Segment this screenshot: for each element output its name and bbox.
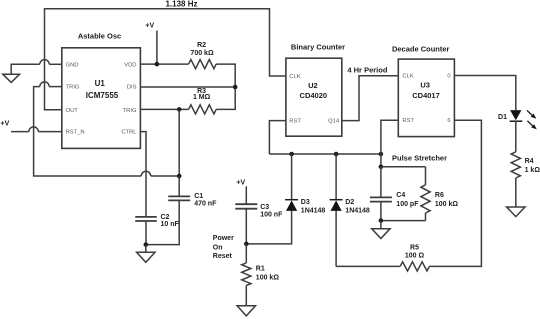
svg-text:+V: +V	[236, 179, 245, 186]
diode D3 1N4148	[246, 154, 325, 244]
LED D1	[498, 110, 537, 129]
svg-text:CD4017: CD4017	[412, 91, 440, 100]
node junction rail/C1	[177, 174, 182, 179]
resistor R6 100 kOhm	[421, 167, 459, 221]
binary counter U2 CD4020 box	[286, 58, 342, 136]
svg-text:1 kΩ: 1 kΩ	[525, 167, 540, 174]
svg-text:VDD: VDD	[124, 62, 136, 68]
svg-text:+V: +V	[1, 120, 10, 127]
svg-text:Astable Osc: Astable Osc	[78, 32, 121, 41]
svg-text:OUT: OUT	[66, 108, 79, 114]
svg-text:+V: +V	[145, 23, 154, 30]
svg-text:100 Ω: 100 Ω	[405, 252, 425, 259]
node junction pulse stretcher top	[379, 165, 384, 170]
resistor R2 700 kOhm	[189, 42, 217, 69]
svg-text:TRIG: TRIG	[66, 85, 80, 91]
svg-text:DIS: DIS	[127, 85, 137, 91]
svg-text:1 MΩ: 1 MΩ	[193, 94, 211, 101]
wire +V to U1 RST_N pin	[11, 127, 62, 132]
svg-text:Pulse Stretcher: Pulse Stretcher	[392, 154, 447, 163]
svg-text:R1: R1	[256, 266, 265, 273]
node junction POR	[244, 242, 249, 247]
node label Power On Reset	[213, 235, 234, 260]
diode D2 1N4148	[330, 154, 370, 266]
resistor R3 1 MOhm	[189, 88, 217, 114]
svg-text:U3: U3	[420, 81, 430, 90]
svg-text:100 nF: 100 nF	[260, 212, 283, 219]
svg-text:RST: RST	[289, 119, 301, 125]
svg-text:6: 6	[447, 118, 450, 124]
svg-text:470 nF: 470 nF	[194, 201, 217, 208]
wire OUT of U1 to top feedback line to U2 CLK	[45, 9, 286, 110]
svg-text:CLK: CLK	[402, 74, 413, 80]
svg-text:C4: C4	[396, 192, 405, 199]
svg-text:Power: Power	[213, 235, 234, 242]
capacitor C2 10 nF	[135, 214, 179, 245]
svg-text:RST_N: RST_N	[66, 130, 85, 136]
ground (R1)	[237, 306, 255, 316]
wire reset rail	[269, 153, 381, 155]
svg-text:1N4148: 1N4148	[301, 207, 326, 214]
svg-text:R2: R2	[197, 42, 206, 49]
node junction DIS	[233, 85, 238, 90]
capacitor C3 100 nF	[235, 204, 283, 244]
wire VDD to R2	[140, 63, 188, 65]
resistor R5 100 Ohm	[400, 244, 429, 271]
svg-text:ICM7555: ICM7555	[86, 91, 119, 100]
node junction pulse stretcher bottom	[379, 218, 384, 223]
svg-text:U2: U2	[308, 81, 318, 90]
node junction THR	[177, 107, 182, 112]
wire U1 GND pin to ground	[11, 60, 62, 74]
wire R4 to ground	[515, 178, 517, 207]
node junction C1/C2/ground	[144, 242, 149, 247]
op-amp U1 ICM7555 box	[62, 48, 141, 149]
svg-text:Reset: Reset	[213, 253, 233, 260]
svg-text:CLK: CLK	[289, 74, 300, 80]
svg-text:100 pF: 100 pF	[396, 201, 419, 208]
svg-text:C3: C3	[260, 204, 269, 211]
wire U3 pin 6 down to R5	[429, 120, 481, 266]
svg-text:100 kΩ: 100 kΩ	[435, 201, 459, 208]
+V supply above C3	[236, 179, 246, 204]
wire Q14 to U3 CLK, 4 Hr Period	[342, 65, 399, 120]
wire U3 pin 0 to D1	[454, 76, 515, 111]
wire to ground (pulse stretcher)	[380, 221, 382, 229]
svg-text:0: 0	[447, 74, 450, 80]
node junction VDD/+V	[155, 62, 160, 67]
wire U1 TRIG pin left, down to lower horizontal rail	[34, 82, 180, 176]
svg-text:GND: GND	[66, 62, 79, 68]
wire R5 to D2 anode	[336, 265, 400, 267]
svg-text:CTRL: CTRL	[121, 130, 137, 136]
wire U2 RST to reset rail	[269, 121, 286, 154]
svg-text:4 Hr Period: 4 Hr Period	[347, 65, 387, 74]
wire U1 THR(TRIG) pin to R3	[140, 108, 188, 110]
svg-text:U1: U1	[95, 79, 106, 88]
svg-text:1.138 Hz: 1.138 Hz	[165, 0, 197, 8]
wire junction to ground	[145, 245, 147, 253]
resistor R4 1 kOhm	[511, 152, 540, 178]
ground (R4)	[507, 207, 525, 217]
svg-text:10 nF: 10 nF	[161, 221, 180, 228]
wire U1 DIS pin to junction	[140, 86, 235, 88]
node junction U3 RST/reset	[379, 152, 384, 157]
svg-text:Decade Counter: Decade Counter	[392, 44, 450, 53]
svg-text:D2: D2	[345, 199, 354, 206]
svg-text:Q14: Q14	[328, 119, 340, 125]
+V supply above VDD	[145, 23, 156, 64]
capacitor C4 100 pF	[370, 167, 419, 221]
svg-text:RST: RST	[402, 118, 414, 124]
svg-text:CD4020: CD4020	[300, 91, 328, 100]
ground (C1/C2)	[137, 252, 155, 262]
svg-text:D3: D3	[301, 199, 310, 206]
svg-text:D1: D1	[498, 114, 507, 121]
svg-text:100 kΩ: 100 kΩ	[256, 275, 280, 282]
wire D1 to R4	[515, 121, 517, 152]
svg-text:R5: R5	[410, 244, 419, 251]
node junction D3/reset	[289, 152, 294, 157]
svg-text:R6: R6	[435, 192, 444, 199]
svg-text:700 kΩ: 700 kΩ	[190, 50, 214, 57]
wire pulse stretcher bottom rail	[381, 220, 426, 222]
svg-text:Binary Counter: Binary Counter	[291, 42, 345, 51]
svg-text:C2: C2	[161, 214, 170, 221]
resistor R1 100 kOhm	[242, 244, 280, 306]
capacitor C1 470 nF	[146, 176, 217, 245]
wire THR junction down to rail	[178, 109, 180, 176]
decade counter U3 CD4017 box	[398, 59, 454, 137]
wire R2 right down to R3 right	[216, 64, 235, 109]
svg-text:C1: C1	[194, 193, 203, 200]
node junction D2/reset	[334, 152, 339, 157]
svg-text:TRIG: TRIG	[123, 108, 137, 114]
svg-text:R4: R4	[525, 158, 534, 165]
svg-text:1N4148: 1N4148	[345, 207, 370, 214]
wire pulse stretcher top rail	[381, 166, 426, 168]
wire U1 CTRL pin down to C2	[140, 132, 146, 217]
svg-text:On: On	[213, 244, 223, 251]
ground (U1 GND)	[3, 74, 20, 82]
wire U3 RST to reset rail and pulse stretcher	[381, 120, 398, 167]
ground (pulse stretcher)	[372, 229, 390, 239]
